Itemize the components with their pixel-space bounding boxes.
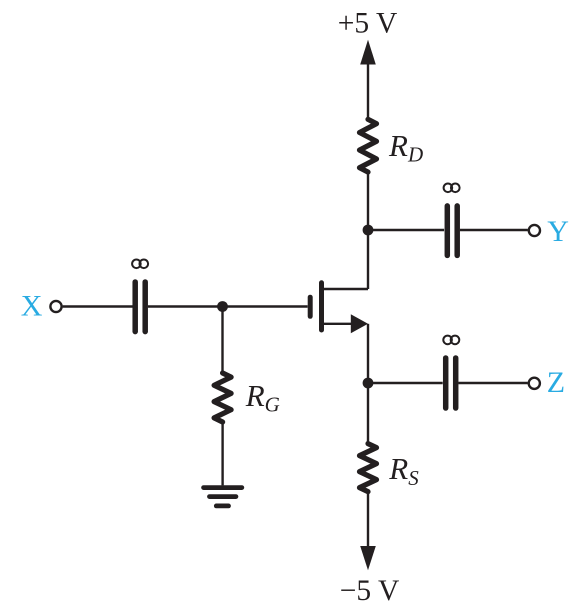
svg-text:Y: Y: [547, 215, 569, 248]
svg-text:−5 V: −5 V: [340, 575, 400, 607]
svg-text:+5 V: +5 V: [338, 8, 398, 40]
svg-text:Z: Z: [547, 366, 565, 399]
svg-text:X: X: [21, 290, 43, 323]
